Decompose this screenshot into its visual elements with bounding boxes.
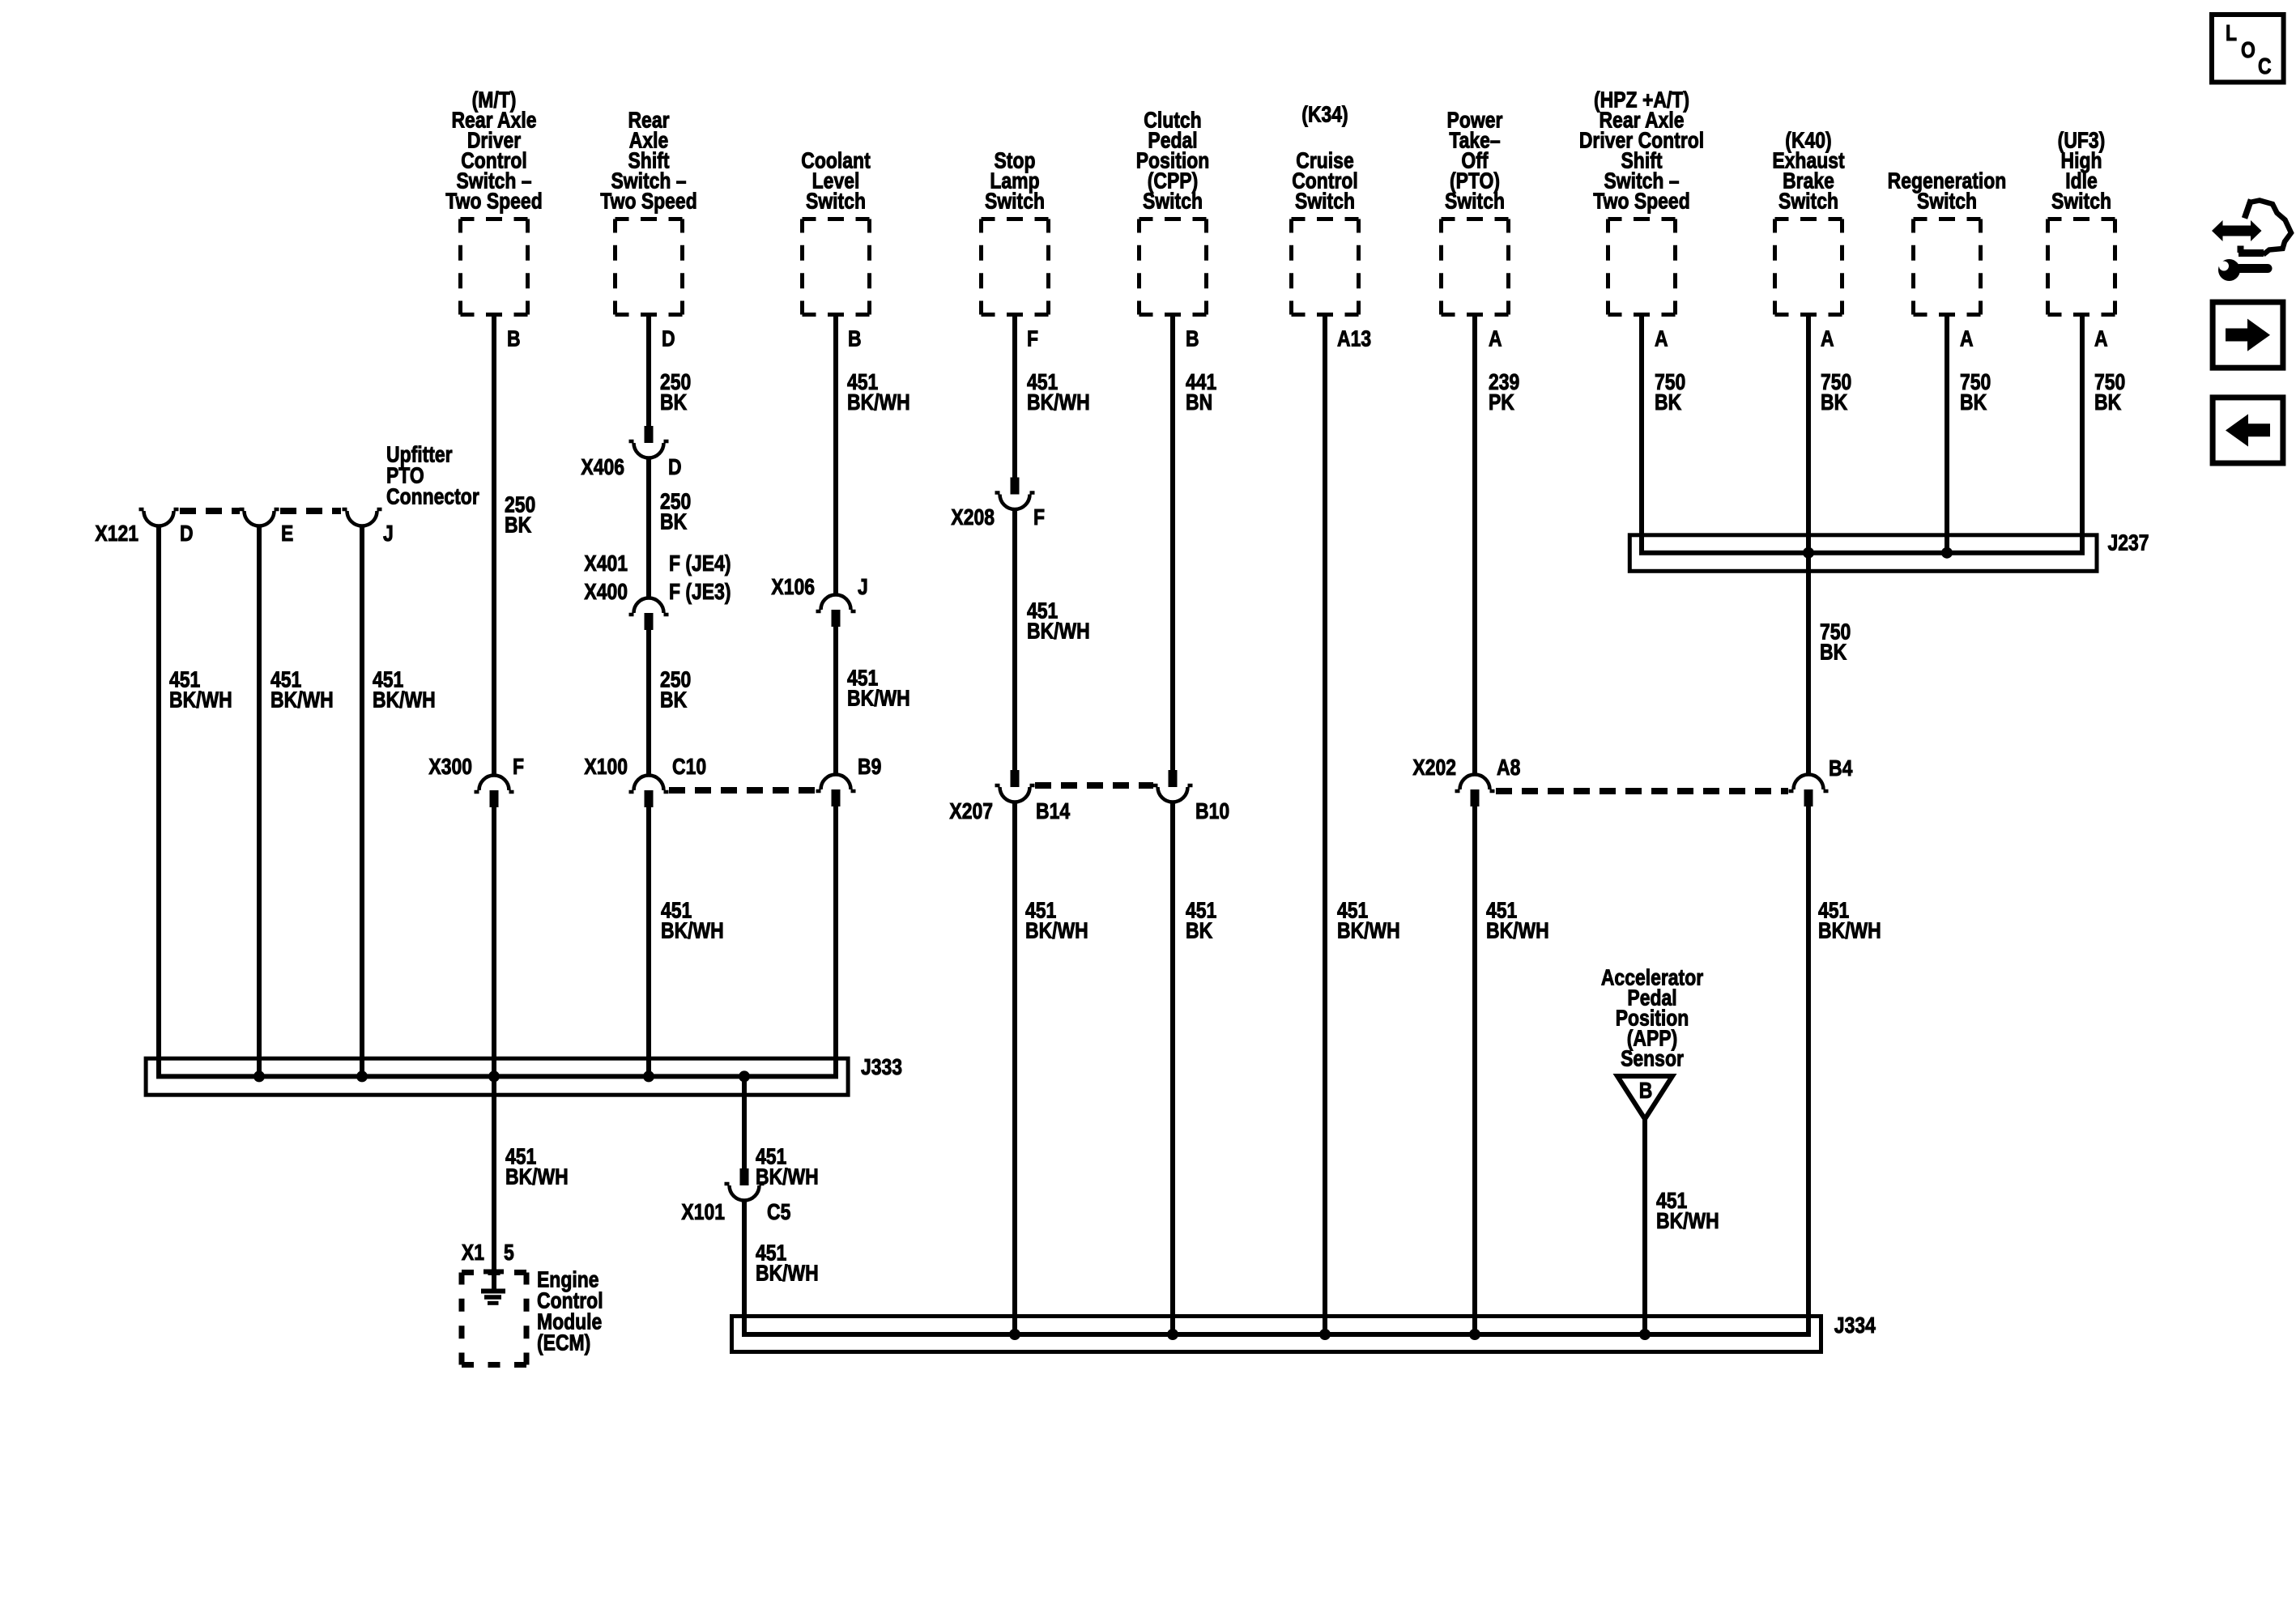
svg-text:BK/WH: BK/WH — [505, 1164, 569, 1189]
pin A of S8 — [1655, 326, 1668, 351]
connector X106 pin J — [771, 575, 867, 627]
svg-text:D: D — [668, 455, 682, 480]
svg-text:BK: BK — [505, 513, 532, 538]
connector X121 pin E — [240, 509, 294, 547]
junction dot J334 / column 5 — [1167, 1329, 1178, 1340]
wire 451 BK/WH from X121-J to J333 — [360, 526, 364, 1077]
junction dot J334 / column 7 — [1469, 1329, 1480, 1340]
svg-text:J: J — [858, 575, 868, 600]
svg-text:A: A — [2094, 326, 2108, 351]
wire label 451 BK/WH (column 1 below J333) — [505, 1144, 569, 1189]
switch S9 (K40) Exhaust Brake Switch — [1772, 128, 1845, 314]
svg-text:Switch: Switch — [1917, 189, 1977, 214]
svg-text:L: L — [2226, 21, 2237, 46]
svg-text:(ECM): (ECM) — [537, 1330, 590, 1355]
switch S11 (UF3) High Idle Switch — [2048, 128, 2115, 314]
wire label 451 BK/WH (X101 upper) — [756, 1144, 819, 1189]
connector X100 pin C10 — [584, 755, 706, 807]
wire 250 BK from S2 pin D to X406 — [646, 317, 651, 430]
ground symbol G1 inside ECM — [481, 1291, 505, 1304]
svg-text:F (JE4): F (JE4) — [669, 551, 731, 577]
wire label 451 BK/WH (column 3 upper) — [847, 370, 910, 415]
label Engine Control Module (ECM) — [537, 1267, 603, 1355]
svg-text:A: A — [1655, 326, 1668, 351]
svg-text:X100: X100 — [584, 755, 628, 780]
svg-text:X400: X400 — [584, 580, 628, 605]
wire label 451 BK/WH (column 3 lower) — [847, 666, 910, 711]
connector X121 pin D — [95, 509, 193, 547]
connector X207 pin B14 — [949, 770, 1070, 824]
dashed harness X207 to B10 — [1035, 782, 1153, 789]
svg-text:BK/WH: BK/WH — [756, 1164, 819, 1189]
wire X121-D down and J333 bus to coolant branch — [159, 526, 836, 1077]
pin A of S10 — [1960, 326, 1974, 351]
junction dot J333 / X101 branch — [739, 1070, 750, 1082]
switch S1 (M/T) Rear Axle Driver Control Switch - Two Speed — [445, 87, 542, 314]
pin A of S11 — [2094, 326, 2108, 351]
connector X401 pin F (JE4) label — [584, 551, 731, 577]
svg-text:Switch: Switch — [806, 189, 866, 214]
exhaust brake splice pack J237 box — [1629, 530, 2149, 571]
connector X406 pin D — [581, 426, 681, 480]
svg-text:Switch: Switch — [985, 189, 1045, 214]
svg-text:BK/WH: BK/WH — [1027, 619, 1090, 644]
svg-text:J237: J237 — [2108, 530, 2149, 555]
wire 451 BK/WH from S3 pin B to X106 — [833, 317, 838, 595]
svg-text:PK: PK — [1489, 390, 1514, 415]
wire label 451 BK/WH (X101 lower) — [756, 1240, 819, 1286]
forward page arrow box — [2213, 302, 2283, 368]
svg-text:C5: C5 — [767, 1200, 790, 1225]
junction dot J333 / X121-E — [253, 1070, 265, 1082]
svg-text:BK: BK — [660, 390, 688, 415]
wire label 451 BK/WH (X121-E) — [270, 667, 334, 713]
svg-text:Two Speed: Two Speed — [1593, 189, 1689, 214]
pin B of S1 — [507, 326, 521, 351]
wire label 451 BK/WH (APP) — [1656, 1189, 1719, 1234]
svg-text:Switch: Switch — [1143, 189, 1203, 214]
wire 451 BK/WH from X121-E to J333 — [257, 526, 262, 1077]
svg-text:BK/WH: BK/WH — [847, 686, 910, 711]
svg-text:X106: X106 — [771, 575, 815, 600]
svg-text:B14: B14 — [1036, 799, 1071, 824]
wire label 441 BN (column 5) — [1186, 370, 1216, 415]
svg-text:J333: J333 — [861, 1055, 902, 1080]
svg-text:D: D — [662, 326, 675, 351]
svg-text:(K34): (K34) — [1301, 102, 1348, 127]
connector X101 pin C5 — [681, 1168, 790, 1225]
pin B of S3 — [848, 326, 862, 351]
wire label 451 BK/WH (column 4 upper) — [1027, 370, 1090, 415]
dashed harness X202 to B4 — [1496, 788, 1788, 794]
svg-text:Switch: Switch — [1445, 189, 1505, 214]
svg-text:BK/WH: BK/WH — [661, 918, 724, 943]
svg-text:A13: A13 — [1337, 326, 1371, 351]
connector B4 — [1789, 756, 1854, 806]
wire 441 BN from S5 pin B to B10 — [1170, 317, 1175, 775]
ECM dashed box — [462, 1273, 526, 1365]
svg-text:Switch: Switch — [1295, 189, 1355, 214]
svg-text:BK: BK — [1186, 918, 1213, 943]
switch S2 Rear Axle Shift Switch - Two Speed — [600, 108, 696, 314]
APP sensor triangle pin B — [1617, 1076, 1672, 1119]
svg-text:C10: C10 — [672, 755, 706, 780]
wire 250 BK from S1 pin B to X300 — [492, 317, 496, 776]
svg-text:B: B — [848, 326, 862, 351]
switch S8 (HPZ +A/T) Rear Axle Driver Control Shift Switch - Two Speed — [1579, 87, 1704, 314]
svg-text:C: C — [2258, 54, 2272, 79]
wire label 750 BK (column 8) — [1655, 370, 1685, 415]
vehicle harness routing icon (vehicle outline with double arrow and wrench) — [2212, 200, 2291, 282]
svg-text:Connector: Connector — [386, 484, 479, 509]
pin A of S9 — [1821, 326, 1834, 351]
pin F of S4 — [1027, 326, 1038, 351]
svg-text:BK/WH: BK/WH — [847, 390, 910, 415]
pin B of S5 — [1186, 326, 1199, 351]
wire 250 BK from X406 to X400 — [646, 458, 651, 598]
wire label 451 BK/WH (column 6) — [1337, 898, 1400, 943]
wire 451 BK/WH from S4 pin F to X208 — [1012, 317, 1017, 483]
svg-text:B: B — [1639, 1079, 1653, 1104]
svg-text:BK: BK — [1821, 390, 1848, 415]
svg-text:X121: X121 — [95, 521, 138, 547]
svg-text:X401: X401 — [584, 551, 628, 577]
wire label 250 BK (column 1) — [505, 492, 535, 538]
wire 239 PK from S7 pin A to X202 — [1472, 317, 1477, 775]
wire label 451 BK/WH (column 4 lower) — [1025, 898, 1088, 943]
connector X300 pin F — [428, 755, 524, 807]
wire 451 BK/WH from X207 to J334 — [1012, 802, 1017, 1335]
backward page arrow box — [2213, 398, 2283, 463]
wire 750 BK from S9 pin A to B4 — [1806, 317, 1811, 775]
switch S7 Power Take-Off (PTO) Switch — [1442, 108, 1509, 314]
ground splice pack J333 box — [146, 1055, 902, 1095]
svg-text:A: A — [1960, 326, 1974, 351]
wire label 451 BK/WH (column 7 lower) — [1486, 898, 1549, 943]
svg-text:A: A — [1821, 326, 1834, 351]
switch S5 Clutch Pedal Position (CPP) Switch — [1136, 108, 1210, 314]
wire label 750 BK (column 9 upper) — [1821, 370, 1851, 415]
svg-text:J: J — [383, 521, 394, 547]
wire label 451 BK/WH (X121-D) — [169, 667, 232, 713]
svg-text:BK: BK — [660, 509, 688, 534]
pin D of S2 — [662, 326, 675, 351]
wire 451 BK/WH from X100 to J333 — [646, 807, 651, 1076]
svg-text:D: D — [180, 521, 194, 547]
svg-text:F: F — [513, 755, 524, 780]
svg-text:F: F — [1027, 326, 1038, 351]
wire 750 BK from S8 pin A through J237 bus to S11 pin A (750 BK) — [1642, 317, 2082, 553]
svg-text:BK/WH: BK/WH — [1656, 1209, 1719, 1234]
svg-text:Sensor: Sensor — [1621, 1046, 1684, 1071]
junction dot J237 / column 10 — [1941, 547, 1953, 559]
svg-text:BK: BK — [1960, 390, 1987, 415]
dashed harness X121 E to J — [280, 508, 341, 514]
svg-text:Two Speed: Two Speed — [600, 189, 696, 214]
svg-text:BK: BK — [2094, 390, 2122, 415]
wire label 451 BK/WH (column 4 middle) — [1027, 598, 1090, 644]
LOC reference box — [2212, 15, 2284, 83]
svg-text:B10: B10 — [1195, 799, 1229, 824]
wire label 451 BK/WH (X121-J) — [373, 667, 436, 713]
junction dot J333 / column 2 — [643, 1070, 654, 1082]
wire label 250 BK (column 2 middle) — [660, 489, 691, 534]
junction dot J334 / APP sensor — [1639, 1329, 1651, 1340]
wire X101 down and J334 bus to B4 branch — [744, 806, 1808, 1334]
svg-text:BK/WH: BK/WH — [756, 1261, 819, 1286]
junction dot J333 / column 1 — [488, 1070, 500, 1082]
pin A of S7 — [1489, 326, 1502, 351]
ground splice pack J334 box — [732, 1313, 1876, 1352]
wire label 250 BK (column 2 upper) — [660, 370, 691, 415]
svg-text:BK: BK — [1655, 390, 1682, 415]
wire 451 BK/WH from J333 to X101 — [742, 1076, 747, 1173]
svg-text:X101: X101 — [681, 1200, 725, 1225]
wire label 750 BK (column 11) — [2094, 370, 2125, 415]
connector X202 pin A8 — [1412, 755, 1520, 806]
wire label 451 BK (column 5 lower) — [1186, 898, 1216, 943]
svg-text:J334: J334 — [1834, 1313, 1876, 1338]
pin A13 of S6 — [1337, 326, 1371, 351]
svg-text:Two Speed: Two Speed — [445, 189, 542, 214]
wire 451 BK/WH from APP sensor to J334 — [1642, 1119, 1647, 1334]
wire label 239 PK (column 7) — [1489, 370, 1519, 415]
switch S3 Coolant Level Switch — [801, 148, 871, 314]
svg-text:Switch: Switch — [2051, 189, 2111, 214]
wire label 451 BK/WH (column 2) — [661, 898, 724, 943]
svg-text:BK/WH: BK/WH — [1027, 390, 1090, 415]
wire label 451 BK/WH (column 9 lower) — [1818, 898, 1881, 943]
connector X400 pin F (JE3) — [584, 580, 731, 630]
junction dot J334 / column 4 — [1009, 1329, 1020, 1340]
svg-text:5: 5 — [504, 1240, 514, 1266]
svg-text:B9: B9 — [858, 755, 881, 780]
wire 250 BK from X400 to X100 — [646, 630, 651, 776]
svg-text:B4: B4 — [1829, 756, 1853, 781]
junction dot J334 / column 6 — [1319, 1329, 1331, 1340]
svg-text:X208: X208 — [951, 505, 995, 530]
connector B9 — [816, 755, 882, 806]
label Accelerator Pedal Position (APP) Sensor — [1601, 965, 1703, 1071]
wire 451 BK/WH from X106 to B9 — [833, 627, 838, 775]
wire 451 BK/WH from S6 pin A13 to J334 — [1323, 317, 1327, 1334]
wire 451 BK/WH from X202 to J334 — [1472, 806, 1477, 1334]
svg-text:A: A — [1489, 326, 1502, 351]
svg-text:BN: BN — [1186, 390, 1212, 415]
svg-text:BK/WH: BK/WH — [373, 687, 436, 713]
svg-text:BK/WH: BK/WH — [1818, 918, 1881, 943]
svg-text:O: O — [2241, 38, 2256, 63]
label X1 pin 5 of ECM — [462, 1240, 514, 1266]
wire 451 BK/WH from X208 to X207 — [1012, 508, 1017, 775]
svg-text:B: B — [507, 326, 521, 351]
svg-text:BK: BK — [660, 687, 688, 713]
junction dot J333 / X121-J — [356, 1070, 368, 1082]
ECM case terminal tick — [483, 1270, 504, 1274]
svg-text:BK/WH: BK/WH — [270, 687, 334, 713]
svg-text:BK/WH: BK/WH — [1486, 918, 1549, 943]
connector X121 pin J — [343, 509, 394, 547]
wire label 750 BK (column 9 below J237) — [1820, 619, 1851, 665]
dashed harness X121 D to E — [180, 508, 240, 514]
label Upfitter PTO Connector — [386, 442, 479, 509]
connector B10 — [1153, 770, 1230, 824]
dashed harness X100 to B9 — [669, 787, 816, 794]
svg-text:X406: X406 — [581, 455, 624, 480]
svg-text:BK: BK — [1820, 640, 1847, 665]
wire label 250 BK (column 2 lower) — [660, 667, 691, 713]
svg-text:E: E — [281, 521, 293, 547]
wire 451 BK from B10 to J334 — [1170, 802, 1175, 1335]
switch S6 (K34) Cruise Control Switch — [1292, 102, 1359, 314]
svg-text:B: B — [1186, 326, 1199, 351]
svg-text:BK/WH: BK/WH — [169, 687, 232, 713]
junction dot J237 / column 9 — [1803, 547, 1814, 559]
svg-text:F (JE3): F (JE3) — [669, 580, 731, 605]
svg-text:X1: X1 — [462, 1240, 484, 1266]
svg-text:Switch: Switch — [1778, 189, 1838, 214]
wire 750 BK from S10 pin A to J237 — [1945, 317, 1949, 553]
svg-text:X202: X202 — [1412, 755, 1456, 781]
svg-text:X207: X207 — [949, 799, 993, 824]
svg-text:BK/WH: BK/WH — [1025, 918, 1088, 943]
svg-text:BK/WH: BK/WH — [1337, 918, 1400, 943]
wire 451 BK/WH from X300 to J333 and down to ECM ground — [492, 807, 496, 1289]
svg-text:X300: X300 — [428, 755, 472, 780]
connector X208 pin F — [951, 478, 1045, 530]
switch S10 Regeneration Switch — [1888, 168, 2007, 314]
switch S4 Stop Lamp Switch — [982, 148, 1049, 314]
wire label 750 BK (column 10) — [1960, 370, 1991, 415]
svg-text:A8: A8 — [1497, 755, 1520, 781]
svg-text:F: F — [1033, 505, 1045, 530]
